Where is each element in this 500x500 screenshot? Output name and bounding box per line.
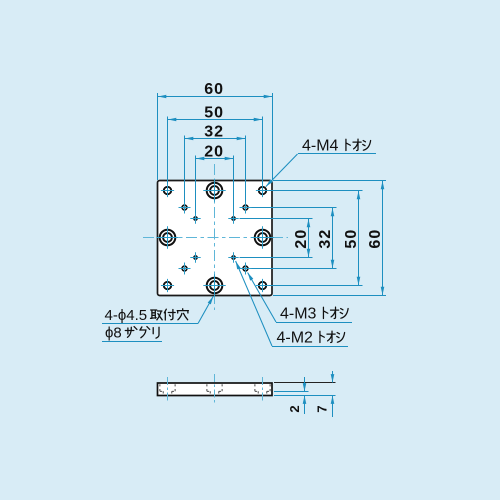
svg-text:32: 32 [204,124,224,141]
M3 hole bottom-left [179,263,191,275]
leader 4-M3 [248,273,352,323]
extension line 50 right top [269,190,363,192]
extension line 32 right top [252,207,337,209]
side view bottom edge extension [274,395,336,397]
svg-text:7: 7 [315,405,330,412]
dimension line 50 right [358,191,360,285]
side view counterbore depth extension [274,391,309,393]
side view plate outline [158,383,273,396]
M2 hole top-right [228,213,238,223]
leader 4-M4 [266,154,376,187]
side view hole profile right [255,384,270,394]
dimension line 32 right [332,208,334,268]
M3 hole top-right [240,202,252,214]
svg-text:4-M4: 4-M4 [302,138,339,155]
leader 4-phi4.5 counterbore [102,296,213,323]
svg-text:4-M2: 4-M2 [277,330,314,347]
extension line 60 right top [273,180,386,182]
svg-text:20: 20 [204,144,224,161]
leader 4-M2 [236,261,348,347]
counterbore hole left-center [156,226,178,248]
M3 hole top-left [179,202,191,214]
dimension line 32 top [185,138,245,140]
extension line 20 right top [240,218,313,220]
dimension 2 side [304,377,306,414]
side view hole profile left [160,384,175,394]
side view centerline right [262,377,264,402]
horizontal centerline of plate [143,237,288,239]
M4 hole top-right [256,184,269,197]
side view centerline left [167,377,169,402]
svg-text:4-ϕ4.5: 4-ϕ4.5 [105,307,148,324]
M2 hole bottom-right [228,252,238,262]
plate outline [158,181,273,296]
extension line 32 right bottom [252,268,337,270]
label 4-phi4.5 mounting hole [105,307,189,324]
svg-text:2: 2 [287,405,302,412]
label 4-M3 toosi [280,306,348,323]
counterbore hole right-center [251,226,273,248]
svg-text:4-M3: 4-M3 [280,306,317,323]
vertical centerline of plate [214,164,216,310]
svg-text:ϕ8: ϕ8 [105,325,122,342]
label phi8 zaguri [105,325,159,342]
extension line 20 right bottom [240,257,313,259]
extension line 32 top right [245,136,247,203]
side view centerline center [214,374,216,404]
dimension line 20 top [196,158,233,160]
extension line 60 top right [272,93,274,180]
extension line 60 right bottom [273,295,386,297]
M4 hole bottom-left [161,279,174,292]
label 4-M4 toosi [302,138,371,155]
svg-text:32: 32 [317,229,334,249]
counterbore hole top-center [203,179,225,201]
dimension line 60 top [158,96,272,98]
extension line 50 right bottom [269,285,363,287]
svg-text:50: 50 [343,229,360,249]
extension line 32 top left [184,136,186,203]
extension line 20 top left [195,156,197,214]
svg-text:60: 60 [204,81,224,98]
underline phi8 zaguri [102,341,162,343]
side view hole profile center [207,384,222,394]
counterbore hole bottom-center [203,274,225,296]
dimension 7 side [332,371,334,417]
M4 hole bottom-right [256,279,269,292]
side view top edge extension [274,382,336,384]
M3 hole bottom-right [240,263,252,275]
label 4-M2 toosi [277,330,345,347]
dimension line 50 top [168,119,262,121]
dimension line 20 right [308,219,310,257]
extension line 50 top left [167,117,169,185]
M4 hole top-left [161,184,174,197]
svg-text:50: 50 [204,105,224,122]
svg-text:20: 20 [293,229,310,249]
extension line 50 top right [262,117,264,185]
extension line 20 top right [233,156,235,214]
M2 hole bottom-left [190,252,200,262]
dimension line 60 right [382,181,384,295]
extension line 60 top left [157,93,159,180]
svg-text:60: 60 [367,229,384,249]
M2 hole top-left [190,213,200,223]
